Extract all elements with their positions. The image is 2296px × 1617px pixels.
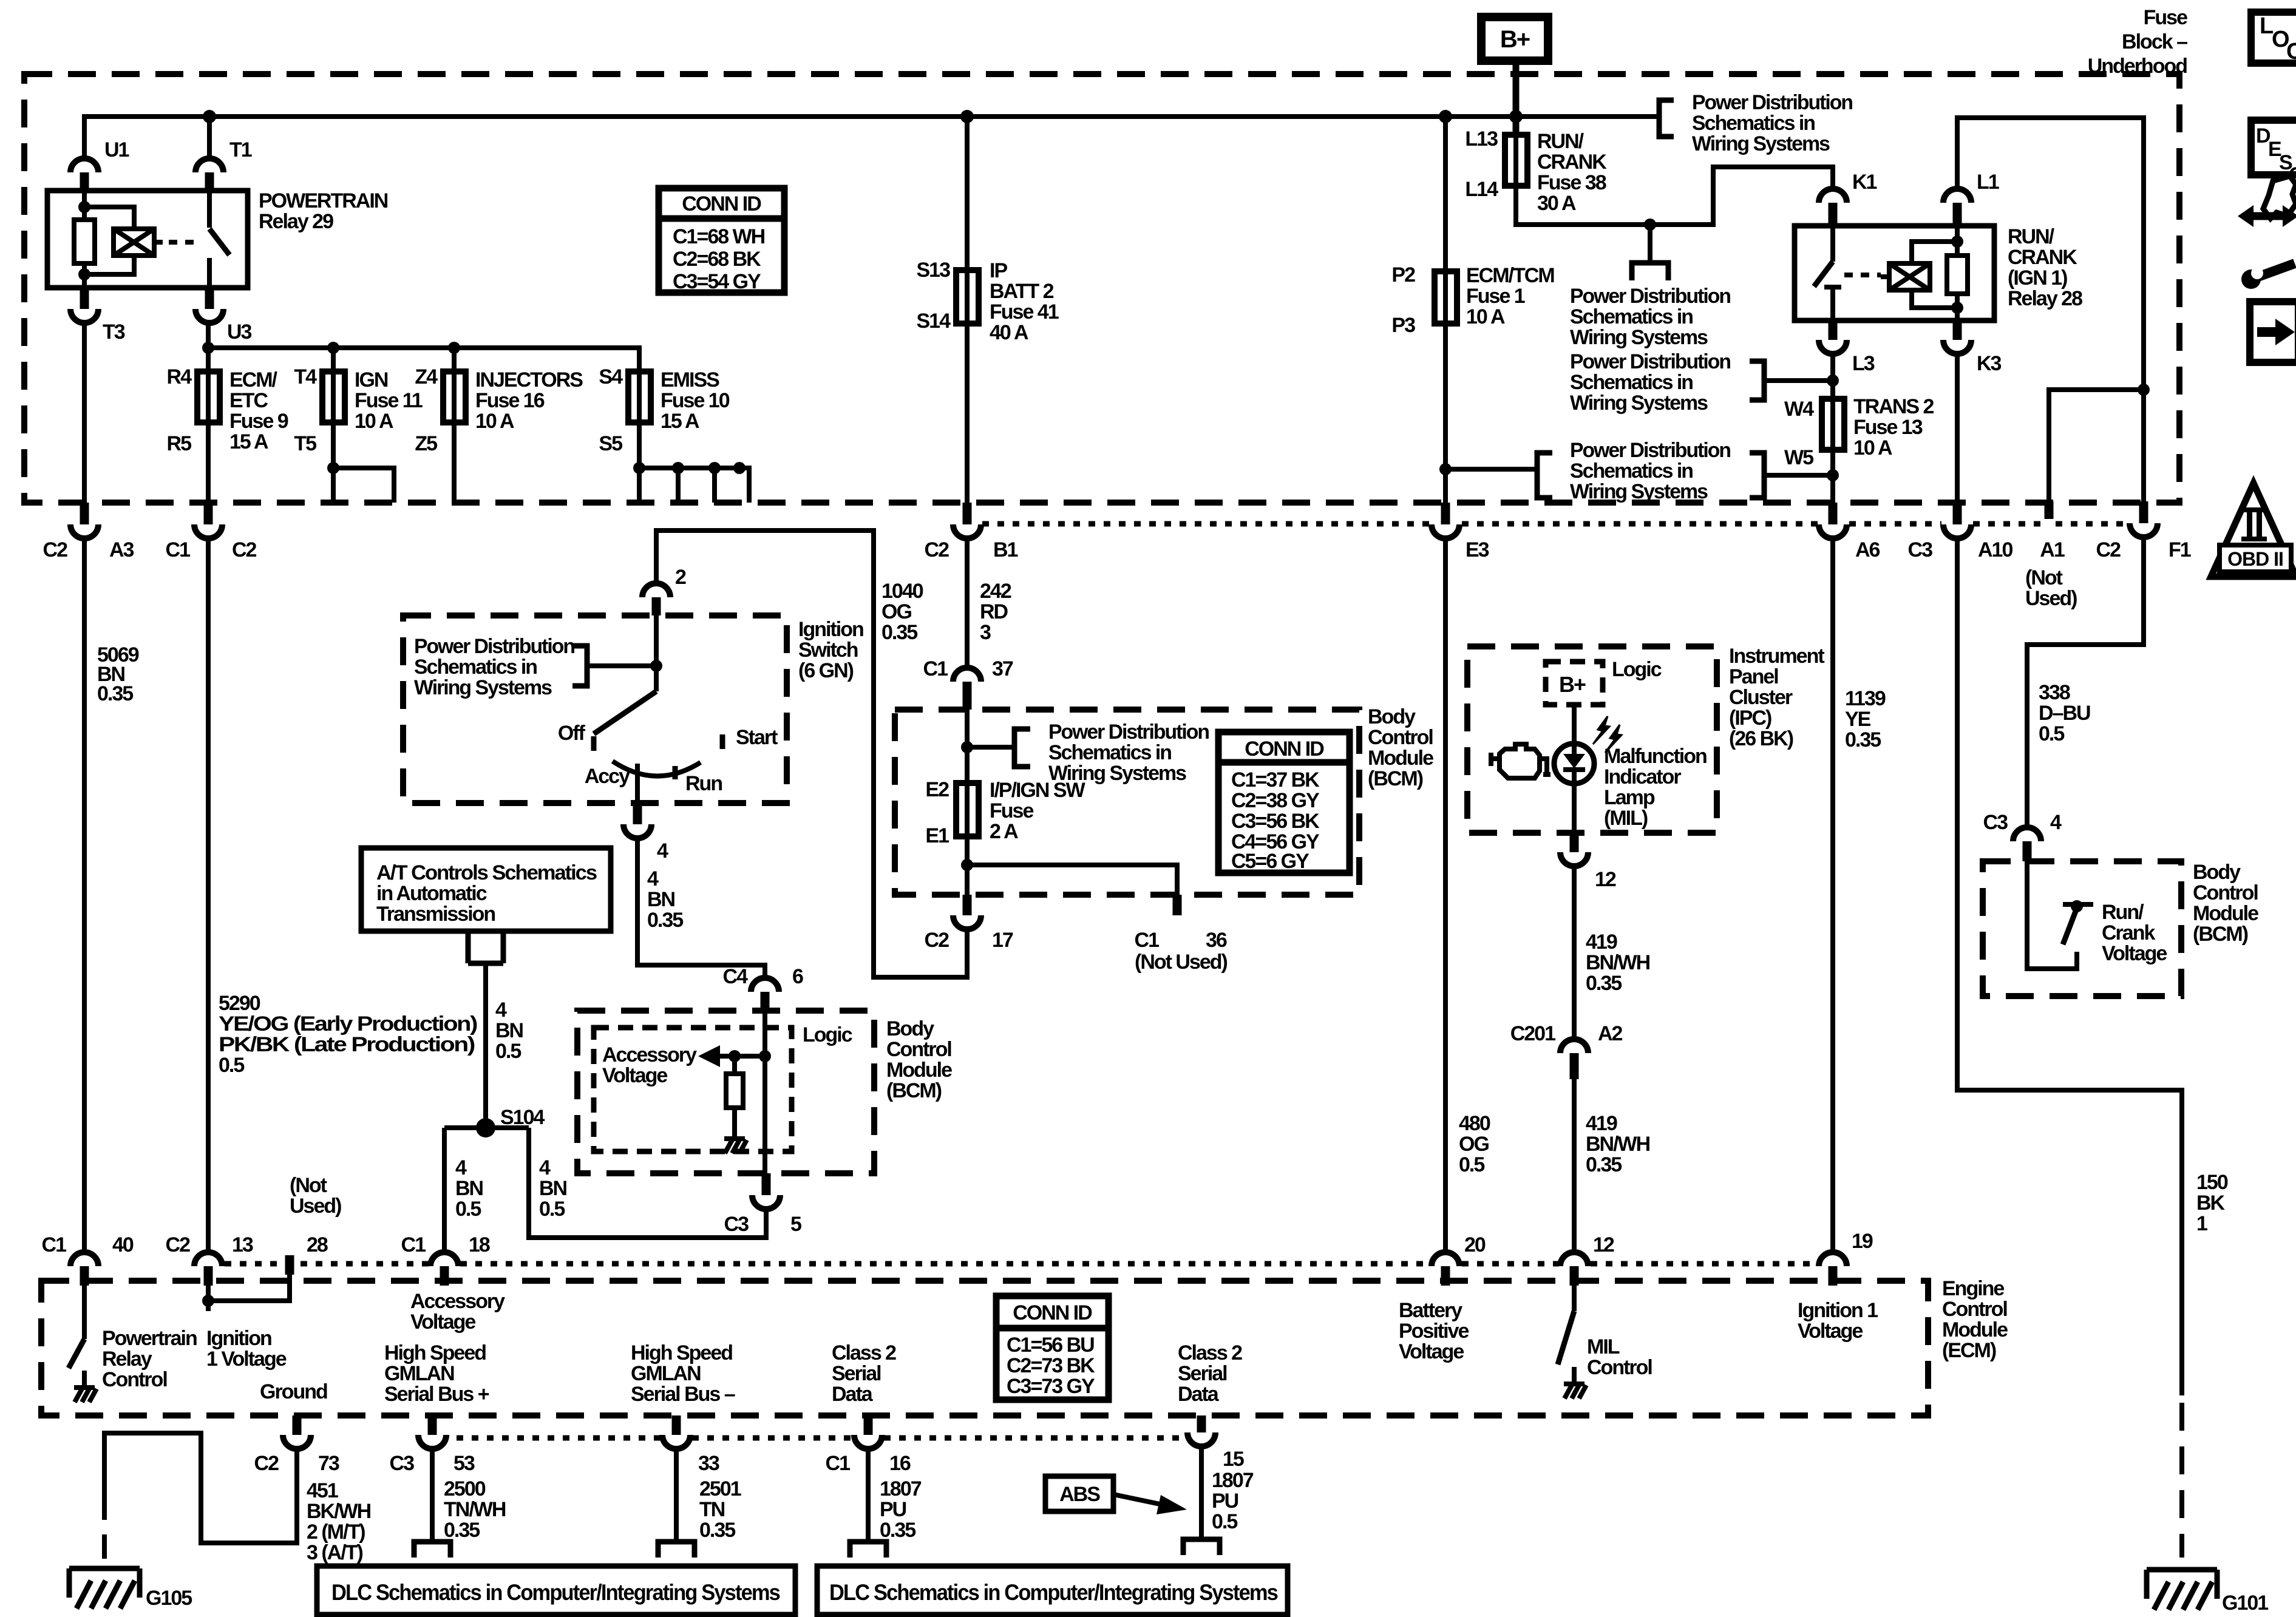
svg-text:12: 12 [1593, 1233, 1614, 1256]
svg-text:0.35: 0.35 [1586, 1153, 1622, 1176]
node bus junction T1 [203, 110, 216, 123]
svg-text:INJECTORS: INJECTORS [475, 368, 583, 392]
wire pin28 loop [208, 1275, 290, 1301]
wire B+ to MIL lamp [1572, 705, 1577, 744]
label wire 5069 [97, 643, 139, 705]
wire fuse1 to exit [1443, 324, 1448, 503]
svg-text:Voltage: Voltage [410, 1310, 475, 1334]
wire 1139 YE ignition1 voltage [1830, 538, 1835, 1253]
svg-text:A10: A10 [1978, 538, 2012, 561]
svg-text:C201: C201 [1510, 1022, 1555, 1045]
node comb 3 [708, 462, 721, 474]
svg-text:12: 12 [1595, 868, 1616, 891]
svg-text:13: 13 [232, 1233, 253, 1256]
connector ignition pin4 [633, 803, 642, 824]
svg-text:C1: C1 [826, 1452, 851, 1475]
wire branch to goalpost note [1648, 225, 1652, 263]
svg-text:1: 1 [2196, 1212, 2207, 1235]
svg-text:1807: 1807 [1212, 1469, 1254, 1492]
svg-text:C1: C1 [42, 1233, 67, 1256]
svg-text:C1: C1 [166, 538, 191, 561]
svg-text:TN: TN [699, 1498, 725, 1521]
node feeder fuse16 [448, 342, 460, 354]
svg-text:Crank: Crank [2102, 921, 2155, 944]
svg-text:Powertrain: Powertrain [102, 1327, 197, 1350]
svg-text:Logic: Logic [803, 1023, 852, 1046]
label A1 not used [2025, 566, 2077, 610]
label wire 480 OG [1459, 1112, 1490, 1176]
label fuse11 text [355, 368, 423, 433]
svg-text:0.5: 0.5 [2039, 722, 2064, 745]
svg-text:Ignition: Ignition [798, 618, 863, 641]
node BCM2 resistor tap [729, 1050, 741, 1062]
svg-text:Fuse 38: Fuse 38 [1537, 171, 1606, 194]
svg-text:0.35: 0.35 [880, 1519, 915, 1542]
wire 5069 BN relay control [82, 538, 87, 1253]
label wire 1807 (15) [1212, 1469, 1254, 1533]
label BCM3 title [2193, 861, 2258, 946]
svg-text:Panel: Panel [1729, 665, 1778, 688]
svg-text:17: 17 [992, 929, 1013, 952]
svg-text:0.35: 0.35 [444, 1519, 480, 1542]
switch ignition blade [594, 691, 656, 734]
svg-text:C2: C2 [254, 1452, 279, 1475]
label fuse16 text [475, 368, 583, 433]
label class2 serial (ECM left) [832, 1341, 896, 1406]
svg-text:B+: B+ [1559, 672, 1586, 697]
svg-text:(Not: (Not [290, 1174, 327, 1197]
switch MIL control [1572, 1286, 1577, 1311]
svg-text:Ignition: Ignition [206, 1327, 271, 1350]
svg-text:CRANK: CRANK [2008, 246, 2077, 269]
connector ignition switch pin2 [642, 583, 670, 597]
svg-text:Data: Data [832, 1383, 874, 1406]
svg-text:S4: S4 [599, 365, 623, 388]
svg-text:5290: 5290 [219, 992, 260, 1015]
wire note3 to W5 node [1764, 473, 1833, 478]
svg-text:T3: T3 [103, 320, 125, 344]
node relay28 coil top [1951, 236, 1963, 248]
connector C1-40 ECM [70, 1252, 98, 1266]
lamp MIL diode [1563, 744, 1585, 784]
svg-text:K1: K1 [1852, 171, 1877, 194]
svg-text:Schematics in: Schematics in [1570, 459, 1693, 483]
bracket note right of text3 [1750, 453, 1764, 498]
label wire 419 upper [1586, 931, 1650, 995]
svg-text:PU: PU [1212, 1490, 1238, 1513]
svg-text:Instrument: Instrument [1729, 645, 1824, 668]
svg-text:C2: C2 [166, 1233, 191, 1256]
svg-text:DLC Schematics in Computer/Int: DLC Schematics in Computer/Integrating S… [829, 1580, 1278, 1605]
svg-text:Schematics in: Schematics in [1692, 112, 1815, 135]
svg-text:TRANS 2: TRANS 2 [1853, 395, 1934, 418]
svg-text:Control: Control [2193, 881, 2258, 904]
svg-text:0.5: 0.5 [495, 1040, 521, 1063]
wire fuse41 to exit [965, 324, 970, 503]
svg-text:C2: C2 [232, 538, 257, 561]
wire BCM3 internal [2027, 861, 2077, 969]
svg-text:ECM/: ECM/ [229, 368, 278, 392]
wire 5290 ignition1 [206, 538, 211, 1253]
dotted harness line ECM row [225, 1261, 1818, 1267]
svg-text:GMLAN: GMLAN [384, 1362, 454, 1385]
svg-text:C1: C1 [923, 657, 948, 680]
icon wrench and arrows [2238, 176, 2296, 289]
wire relay29 coil leg [82, 191, 87, 274]
svg-text:Serial Bus –: Serial Bus – [631, 1383, 735, 1406]
connector C4-6 BCM [751, 978, 779, 992]
svg-text:Fuse 13: Fuse 13 [1853, 416, 1923, 439]
svg-text:L1: L1 [1977, 171, 1999, 194]
label fuse38 text [1537, 130, 1607, 215]
label ip fuse text [990, 779, 1086, 843]
wire fuse38 to relay28 K1 [1516, 135, 1833, 225]
connector K3 [1953, 320, 1962, 340]
svg-text:T1: T1 [229, 138, 252, 161]
wire 419 upper [1572, 866, 1577, 1040]
wire 2500 TN/WH [430, 1449, 435, 1542]
svg-text:Body: Body [1368, 705, 1416, 728]
terminal goalpost gmlan plus [414, 1542, 450, 1558]
label wire 338 D-BU [2039, 681, 2090, 745]
node bus junction fuse1 [1439, 110, 1452, 123]
svg-text:C1=68 WH: C1=68 WH [673, 225, 765, 248]
ignition switch dashed box [403, 615, 787, 803]
pin C1-36 not used [1173, 895, 1182, 915]
svg-text:Control: Control [1587, 1356, 1652, 1379]
label relay 28 [2008, 225, 2082, 310]
svg-text:(6 GN): (6 GN) [798, 659, 854, 682]
label power distribution note 2b [1570, 285, 1730, 349]
svg-text:BATT 2: BATT 2 [990, 280, 1054, 303]
connector 19 ECM [1819, 1252, 1847, 1266]
connector C1-37 BCM [953, 668, 981, 682]
svg-text:E1: E1 [925, 824, 949, 847]
svg-text:Power Distribution: Power Distribution [1692, 91, 1852, 114]
arrow ABS to wire [1113, 1494, 1187, 1514]
connector A6 [1829, 503, 1838, 524]
connector C1-16 class2 [864, 1415, 873, 1435]
svg-text:Block –: Block – [2122, 30, 2187, 53]
svg-text:Z5: Z5 [415, 432, 437, 455]
svg-text:3 (A/T): 3 (A/T) [307, 1541, 362, 1564]
node fuse11 jog [327, 462, 339, 474]
label wire 2501 [699, 1477, 741, 1542]
wire 4 BN accessory voltage [637, 838, 765, 978]
svg-text:0.35: 0.35 [699, 1519, 735, 1542]
svg-text:0.5: 0.5 [219, 1054, 244, 1077]
node BCM2 main [759, 1050, 771, 1062]
svg-text:Voltage: Voltage [1798, 1320, 1863, 1343]
svg-text:Body: Body [886, 1017, 934, 1040]
svg-text:0.5: 0.5 [1212, 1510, 1237, 1533]
svg-text:0.5: 0.5 [539, 1198, 565, 1221]
svg-text:3: 3 [980, 621, 991, 644]
fuse F1 ECM/TCM [1435, 271, 1457, 324]
svg-text:2500: 2500 [444, 1477, 486, 1500]
svg-text:Power Distribution: Power Distribution [1570, 350, 1730, 373]
label fuse1 text [1466, 264, 1554, 328]
wire fuse16 drop to border [452, 348, 457, 503]
wire 480 OG battery positive [1443, 538, 1448, 1253]
svg-text:419: 419 [1586, 1112, 1617, 1135]
fuse F10 EMISS [628, 371, 651, 422]
svg-text:Control: Control [1368, 726, 1433, 749]
svg-text:(IPC): (IPC) [1729, 707, 1771, 730]
svg-text:Fuse 9: Fuse 9 [229, 410, 288, 433]
wire B+ feed down [1513, 61, 1520, 135]
svg-text:C1=37 BK: C1=37 BK [1231, 768, 1320, 792]
svg-text:Fuse 11: Fuse 11 [355, 389, 423, 412]
svg-text:Relay 29: Relay 29 [259, 210, 333, 233]
svg-text:(BCM): (BCM) [886, 1079, 942, 1102]
svg-text:Power Distribution: Power Distribution [1048, 720, 1209, 744]
label accessory voltage (BCM2) [602, 1043, 697, 1087]
svg-text:C3=56 BK: C3=56 BK [1231, 810, 1320, 833]
svg-text:Module: Module [1368, 747, 1433, 770]
svg-text:0.35: 0.35 [97, 682, 133, 705]
svg-text:0.35: 0.35 [647, 909, 683, 932]
svg-text:Transmission: Transmission [376, 903, 495, 926]
svg-text:Logic: Logic [1612, 658, 1662, 681]
svg-text:6: 6 [792, 965, 803, 988]
svg-text:2501: 2501 [699, 1477, 741, 1500]
ground MIL control [1564, 1384, 1586, 1398]
connector T1 [195, 158, 223, 172]
svg-text:18: 18 [469, 1233, 490, 1256]
BCM run/crank dashed box [1983, 861, 2181, 996]
label ignition 1 voltage (ECM left) [206, 1327, 287, 1371]
svg-text:in Automatic: in Automatic [376, 882, 487, 905]
wire fuse1 feed [1443, 117, 1448, 324]
node comb 1 [633, 462, 645, 474]
label accessory voltage (ECM) [410, 1290, 505, 1334]
wire fuse11 jog [333, 422, 394, 503]
wire fuse13 to exit [1830, 450, 1835, 503]
wire relay29 actuation dashed [169, 240, 200, 245]
connector 15 class2 [1197, 1415, 1206, 1432]
svg-text:B1: B1 [993, 538, 1018, 561]
svg-text:1 Voltage: 1 Voltage [206, 1347, 287, 1371]
connector L3 [1829, 320, 1838, 340]
wire note to bracket (BCM1) [967, 745, 1014, 750]
svg-text:ECM/TCM: ECM/TCM [1466, 264, 1554, 287]
svg-text:BN: BN [495, 1019, 523, 1042]
svg-text:Voltage: Voltage [2102, 942, 2167, 965]
svg-text:451: 451 [307, 1479, 338, 1502]
svg-text:(BCM): (BCM) [2193, 923, 2248, 946]
BCM ipfuse dashed box [895, 710, 1359, 895]
wire relay28 actuation dashed [1844, 273, 1881, 277]
terminal goalpost gmlan minus [658, 1542, 695, 1558]
svg-text:A3: A3 [109, 538, 134, 561]
node comb 2 [672, 462, 684, 474]
svg-text:DLC Schematics in Computer/Int: DLC Schematics in Computer/Integrating S… [331, 1580, 780, 1605]
connector U3 [205, 288, 214, 309]
wire fuse9 to exit [206, 422, 211, 503]
svg-text:Module: Module [2193, 902, 2258, 925]
arc ignition detent [613, 761, 701, 776]
svg-text:Start: Start [736, 726, 778, 749]
wire BCM1 fuse feed [965, 710, 970, 836]
label fuse41 text [990, 259, 1059, 344]
node bus junction fuse41 [960, 110, 974, 123]
node bus junction B+ [1509, 110, 1523, 123]
wire 242 RD to BCM [965, 538, 970, 668]
wire U3 to fuse row feeder [208, 323, 639, 468]
fuse F11 IGN [322, 371, 345, 422]
label power distribution note 3 [1570, 439, 1730, 503]
svg-text:Wiring Systems: Wiring Systems [1692, 132, 1830, 155]
svg-text:Serial: Serial [832, 1362, 881, 1385]
svg-text:Run: Run [685, 772, 722, 795]
svg-text:37: 37 [992, 657, 1013, 680]
node relay29 coil top [78, 201, 90, 213]
svg-text:CONN ID: CONN ID [1245, 737, 1324, 761]
wire 1807 PU 0.5 [1199, 1446, 1204, 1539]
CONN ID table fuse block [659, 188, 784, 293]
svg-text:G105: G105 [146, 1587, 192, 1610]
switch relay28 contact [1830, 226, 1835, 262]
label wire 5290 [219, 992, 477, 1077]
IPC dashed box [1467, 646, 1717, 833]
svg-text:Schematics in: Schematics in [414, 656, 537, 679]
svg-text:S14: S14 [917, 310, 951, 333]
svg-text:10 A: 10 A [1466, 305, 1505, 328]
wire MIL lamp to pin12 [1572, 784, 1577, 833]
svg-text:C3: C3 [390, 1452, 415, 1475]
svg-text:R5: R5 [167, 432, 192, 455]
svg-text:Wiring Systems: Wiring Systems [414, 676, 552, 699]
DLC schematics box right [817, 1566, 1288, 1615]
label fuse10 text [661, 368, 730, 433]
svg-text:YE/OG (Early Production): YE/OG (Early Production) [219, 1012, 477, 1036]
svg-text:OG: OG [881, 600, 911, 623]
svg-text:Fuse 16: Fuse 16 [475, 389, 545, 412]
node BCM1 note [961, 741, 973, 753]
svg-text:C3: C3 [724, 1213, 749, 1236]
svg-text:Accy: Accy [585, 765, 630, 788]
label MIL text [1604, 745, 1707, 830]
svg-text:Accessory: Accessory [410, 1290, 505, 1313]
svg-text:242: 242 [980, 580, 1011, 603]
svg-text:0.5: 0.5 [1459, 1153, 1484, 1176]
label wire 4 BN 0.5 (left) [455, 1156, 483, 1221]
svg-text:YE: YE [1845, 708, 1871, 731]
resistor BCM pulldown [726, 1074, 743, 1108]
svg-text:4: 4 [539, 1156, 551, 1179]
svg-text:0.35: 0.35 [881, 621, 917, 644]
svg-text:T4: T4 [294, 365, 317, 388]
svg-text:Voltage: Voltage [1399, 1340, 1464, 1363]
node feeder fuse9 [202, 342, 214, 354]
connector C201-A2 [1560, 1039, 1588, 1053]
svg-text:Fuse 10: Fuse 10 [661, 389, 730, 412]
svg-text:Cluster: Cluster [1729, 686, 1793, 709]
svg-text:OBD II: OBD II [2227, 548, 2283, 570]
wire 1807 PU 0.35 [866, 1449, 871, 1542]
svg-text:BK/WH: BK/WH [307, 1500, 371, 1523]
svg-text:PU: PU [880, 1498, 906, 1521]
svg-text:EMISS: EMISS [661, 368, 719, 392]
svg-text:1139: 1139 [1845, 687, 1886, 710]
label wire 451 [307, 1479, 371, 1564]
svg-text:10 A: 10 A [475, 410, 514, 433]
connector K1 [1819, 189, 1847, 203]
label power distribution note top right [1692, 91, 1852, 155]
svg-text:Off: Off [558, 722, 586, 745]
svg-text:D–BU: D–BU [2039, 702, 2090, 725]
svg-text:Schematics in: Schematics in [1570, 305, 1693, 328]
svg-text:Module: Module [886, 1059, 952, 1082]
svg-text:19: 19 [1852, 1230, 1873, 1253]
CONN ID table BCM [1218, 732, 1350, 873]
label gmlan plus [384, 1341, 489, 1406]
svg-text:419: 419 [1586, 931, 1617, 954]
svg-text:5: 5 [790, 1213, 801, 1236]
connector C1-C2 [204, 503, 213, 524]
svg-text:40: 40 [112, 1233, 134, 1256]
ground G105 [69, 1568, 140, 1609]
wire A1 branch [2049, 390, 2144, 501]
label wire 4 BN 0.35 [647, 867, 683, 932]
relay K29 POWERTRAIN box [47, 191, 248, 288]
svg-text:Serial: Serial [1178, 1362, 1227, 1385]
svg-text:Serial Bus +: Serial Bus + [384, 1383, 489, 1406]
svg-text:BN: BN [455, 1177, 483, 1200]
contact Run [673, 766, 678, 779]
connector C2-B1 [963, 503, 972, 524]
label power distribution note 2 [1570, 350, 1730, 415]
svg-text:(Not Used): (Not Used) [1135, 951, 1228, 974]
connector 20 ECM [1432, 1252, 1459, 1266]
svg-text:2 A: 2 A [990, 820, 1018, 843]
svg-text:PK/BK (Late Production): PK/BK (Late Production) [219, 1033, 475, 1056]
node comb 4 [733, 462, 746, 474]
svg-text:C2: C2 [925, 538, 949, 561]
node L3 note [1827, 375, 1839, 387]
svg-text:ABS: ABS [1059, 1483, 1100, 1506]
label 28 not used [290, 1174, 341, 1218]
svg-text:Control: Control [886, 1038, 951, 1061]
svg-text:A2: A2 [1598, 1022, 1623, 1045]
label ignition switch title [798, 618, 863, 682]
svg-text:Run/: Run/ [2102, 901, 2144, 924]
svg-text:Lamp: Lamp [1604, 786, 1655, 809]
node fuse38 branch [1644, 219, 1656, 231]
ground BCM internal [724, 1139, 747, 1153]
svg-text:C: C [2286, 39, 2296, 64]
svg-text:L3: L3 [1852, 352, 1875, 375]
wire accessory output [635, 764, 640, 803]
svg-text:10 A: 10 A [1853, 436, 1892, 459]
svg-text:Data: Data [1178, 1383, 1220, 1406]
wire note2 to L3 [1764, 378, 1833, 383]
svg-text:Ground: Ground [260, 1380, 327, 1403]
wire fuse1 branch to note [1445, 467, 1537, 472]
svg-text:Body: Body [2193, 861, 2241, 884]
connector C3-4 BCM [2013, 827, 2041, 841]
svg-text:Power Distribution: Power Distribution [1570, 439, 1730, 462]
connector C3-5 [762, 1173, 771, 1195]
connector C2-13 ECM [194, 1252, 222, 1266]
svg-text:Class 2: Class 2 [832, 1341, 896, 1364]
svg-text:15 A: 15 A [661, 410, 699, 433]
resistor relay29 coil suppression [74, 220, 95, 263]
connector L1 [1943, 189, 1971, 203]
wire resistor branch [732, 1056, 737, 1139]
dotted harness line fuse block bottom [982, 521, 2128, 527]
